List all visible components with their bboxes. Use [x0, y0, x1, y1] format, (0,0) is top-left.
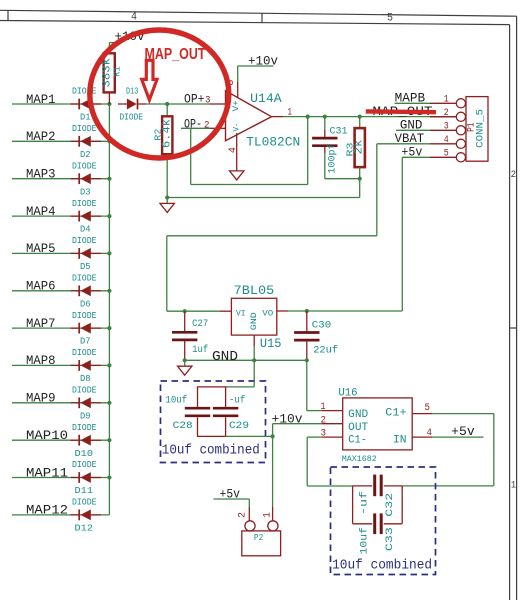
svg-text:100pf: 100pf — [327, 143, 339, 174]
diode D4 — [71, 211, 101, 222]
svg-text:U16: U16 — [338, 388, 357, 400]
svg-text:GND: GND — [212, 349, 238, 365]
annotation red ellipse MAP_OUT highlight — [90, 30, 229, 158]
svg-text:OP+: OP+ — [184, 92, 205, 106]
wire D13 to op-amp V+ input — [146, 103, 210, 105]
wire C1- vertical down — [306, 437, 308, 486]
wire anode bus vertical — [108, 104, 110, 515]
svg-text:1: 1 — [511, 481, 516, 492]
svg-text:10uf: 10uf — [358, 527, 370, 555]
svg-text:3: 3 — [205, 94, 211, 106]
svg-text:10uf combined: 10uf combined — [332, 558, 432, 573]
svg-text:D8: D8 — [80, 374, 91, 384]
op-amp U14A output pin lead — [271, 116, 283, 118]
capacitor C30 — [294, 311, 319, 360]
regulator U15 GND pin lead — [253, 335, 255, 346]
connector P2 body — [242, 531, 281, 556]
svg-text:7BL05: 7BL05 — [234, 283, 275, 298]
wire box1 bottom to +10v net — [226, 435, 273, 437]
svg-text:+5v: +5v — [451, 425, 475, 439]
diode D6 — [71, 285, 101, 296]
junction bus row 10 — [107, 438, 111, 442]
svg-text:D4: D4 — [80, 225, 91, 235]
svg-text:DIODE: DIODE — [72, 386, 97, 396]
wire ground stub C27 — [184, 360, 186, 366]
junction U15 GND on rail — [252, 358, 256, 362]
svg-text:DIODE: DIODE — [72, 423, 97, 433]
wire C1- to C32/C33 left — [307, 485, 352, 487]
svg-text:2: 2 — [321, 414, 327, 426]
wire MAP7 net — [12, 327, 109, 329]
wire ground stub R2 — [166, 198, 168, 204]
svg-text:DIODE: DIODE — [72, 460, 97, 470]
junction bus row 1 — [107, 102, 111, 106]
svg-text:MAP6: MAP6 — [26, 280, 56, 294]
wire MAP5 net — [12, 252, 109, 254]
connector P2 pin 1 pad — [268, 521, 278, 531]
wire VBAT net horizontal — [377, 143, 430, 145]
svg-text:MAP9: MAP9 — [26, 392, 56, 406]
svg-text:C1+: C1+ — [385, 408, 406, 420]
svg-text:CONN_5: CONN_5 — [475, 109, 487, 148]
diode D8 — [71, 360, 101, 371]
wire R2 top lead — [166, 104, 168, 116]
wire C1+ to C32/C33 right — [402, 485, 494, 487]
svg-text:D9: D9 — [80, 411, 91, 421]
connector P1 pin 5 pad — [456, 153, 465, 162]
wire pin2 lead — [430, 116, 456, 118]
wire pin8 to +10v — [237, 66, 239, 82]
diode D11 — [71, 472, 101, 483]
U16 pin 4 lead — [412, 436, 432, 438]
diode D3 — [71, 173, 101, 184]
svg-text:D13: D13 — [126, 87, 138, 97]
wire U16 OUT to +10v — [273, 423, 322, 425]
svg-text:C30: C30 — [312, 319, 331, 331]
connector P1 pin 3 pad — [456, 126, 465, 135]
wire MAP12 net — [12, 514, 109, 516]
svg-text:10uf combined: 10uf combined — [162, 443, 260, 458]
wire C31/R3 bottom rail — [325, 178, 360, 180]
svg-text:V+: V+ — [231, 100, 241, 111]
wire +5v down to P2 pin 2 — [248, 499, 250, 507]
wire MAPB stub — [395, 102, 430, 104]
svg-text:DIODE: DIODE — [72, 498, 97, 508]
svg-text:GND: GND — [348, 409, 368, 421]
U16 pin 1 lead — [322, 410, 343, 412]
wire VBAT horizontal long — [167, 235, 377, 237]
svg-text:MAP8: MAP8 — [26, 354, 56, 368]
wire U15 GND to rail — [253, 346, 255, 360]
svg-text:VI: VI — [236, 309, 246, 319]
svg-text:OUT: OUT — [348, 422, 368, 434]
junction bus row 6 — [107, 289, 111, 293]
connector P1 body — [466, 97, 488, 162]
svg-text:D6: D6 — [80, 299, 91, 309]
diode D10 — [71, 435, 101, 446]
svg-text:C31: C31 — [330, 126, 348, 138]
junction +10v net box1 — [271, 434, 275, 438]
svg-text:DIODE: DIODE — [120, 112, 144, 122]
junction bus row 8 — [107, 363, 111, 367]
svg-text:DIODE: DIODE — [72, 199, 97, 209]
wire +10v label stub — [109, 42, 116, 44]
svg-text:P2: P2 — [254, 532, 264, 543]
connector P1 pin 4 pad — [456, 139, 465, 148]
diode D7 — [71, 323, 101, 334]
wire MAP10 net — [12, 439, 109, 441]
wire VBAT down to VI — [166, 236, 168, 311]
diode D5 — [71, 248, 101, 259]
U16 pin 3 lead — [322, 436, 343, 438]
junction R2 bottom on ground rail — [165, 195, 169, 199]
junction bus row 5 — [107, 251, 111, 255]
connector P2 pin 2 lead — [248, 507, 250, 521]
annotation dashed box C32/C33 — [331, 467, 436, 575]
wire GND down into box1 — [253, 360, 255, 387]
svg-text:C29: C29 — [229, 420, 249, 432]
wire C1+ horizontal — [432, 413, 494, 415]
frame top inner line — [0, 21, 510, 25]
junction C27 bottom — [183, 358, 187, 362]
svg-text:D11: D11 — [75, 486, 94, 496]
svg-text:D1: D1 — [80, 113, 91, 123]
svg-text:DIODE: DIODE — [72, 274, 97, 284]
wire C1+ vertical down — [493, 414, 495, 486]
svg-text:MAP10: MAP10 — [26, 429, 68, 443]
svg-text:C28: C28 — [173, 420, 193, 432]
wire R3 top lead — [359, 117, 361, 128]
wire MAP11 net — [12, 477, 109, 479]
svg-text:U15: U15 — [260, 336, 282, 351]
svg-text:5: 5 — [425, 402, 431, 414]
svg-text:-uf: -uf — [358, 491, 370, 515]
frame right inner line — [509, 25, 511, 600]
svg-text:GND: GND — [249, 312, 259, 330]
svg-text:D2: D2 — [80, 150, 91, 160]
wire MAP1 net — [12, 103, 109, 105]
junction C30 bottom — [305, 358, 309, 362]
capacitor C32 — [375, 475, 382, 497]
wire MAP2 net — [12, 140, 109, 142]
svg-text:+5v: +5v — [401, 145, 422, 160]
svg-text:DIODE: DIODE — [72, 124, 97, 134]
svg-text:MAP2: MAP2 — [26, 130, 56, 144]
connector P2 pin 1 lead — [272, 507, 274, 521]
op-amp U14A — [226, 91, 272, 141]
svg-text:2: 2 — [511, 170, 516, 181]
svg-text:1: 1 — [263, 512, 274, 518]
diode D1 — [71, 99, 101, 110]
junction bus row 2 — [107, 139, 111, 143]
svg-text:C33: C33 — [384, 527, 396, 551]
wire +5v net horizontal — [402, 156, 430, 158]
wire VO output net — [288, 310, 402, 312]
wire C31 top — [324, 117, 326, 130]
svg-text:10uf: 10uf — [165, 395, 187, 407]
wire VBAT vertical — [376, 144, 378, 236]
svg-text:DIODE: DIODE — [72, 87, 97, 97]
regulator U15 VI pin lead — [220, 310, 231, 312]
junction R2 top — [165, 102, 169, 106]
svg-text:DIODE: DIODE — [72, 348, 97, 358]
U16 pin 2 lead — [322, 423, 343, 425]
svg-text:+10v: +10v — [248, 53, 278, 68]
wire op-amp V- input — [181, 127, 210, 129]
svg-text:R1: R1 — [111, 66, 122, 77]
wire +10v stub (op-amp) — [238, 65, 274, 67]
wire C31 bottom — [324, 153, 326, 179]
svg-text:OP-: OP- — [184, 118, 202, 132]
junction bus row 9 — [107, 401, 111, 405]
annotation dashed box C28/C29 — [161, 381, 266, 463]
frame tick right rows — [510, 327, 517, 329]
svg-text:MAP5: MAP5 — [26, 242, 56, 256]
junction C27 top — [183, 309, 187, 313]
junction bus row 11 — [107, 475, 111, 479]
diode D12 — [71, 510, 101, 521]
diode D2 — [71, 136, 101, 147]
wire +10v down to P2 — [272, 424, 274, 507]
svg-text:R2: R2 — [153, 128, 164, 140]
wire op-amp output to P1 pin 2 — [283, 116, 456, 118]
svg-text:MAP3: MAP3 — [26, 168, 56, 182]
wire R1 bottom lead — [108, 92, 110, 104]
junction R3 on output — [358, 115, 362, 119]
IC U16 body — [343, 398, 413, 450]
diode D9 — [71, 397, 101, 408]
svg-text:U14A: U14A — [250, 91, 282, 106]
junction C31 on output — [323, 115, 327, 119]
svg-text:TL082CN: TL082CN — [246, 135, 300, 150]
svg-text:VO: VO — [262, 309, 273, 319]
capacitor C27 — [172, 311, 197, 360]
capacitor C29 — [213, 408, 238, 416]
svg-text:2: 2 — [237, 512, 248, 518]
svg-text:22uf: 22uf — [313, 344, 338, 356]
svg-text:MAP_OUT: MAP_OUT — [145, 46, 206, 63]
wire bottom rail to ground rail — [359, 179, 361, 198]
svg-text:4: 4 — [131, 12, 137, 24]
svg-text:D12: D12 — [75, 524, 94, 534]
frame right outer line — [516, 16, 518, 600]
svg-text:MAX1682: MAX1682 — [342, 454, 377, 464]
svg-text:MAP11: MAP11 — [26, 466, 68, 480]
wire MAP8 net — [12, 364, 109, 366]
wire MAP9 net — [12, 402, 109, 404]
svg-text:DIODE: DIODE — [72, 161, 97, 171]
svg-text:MAP12: MAP12 — [26, 504, 68, 518]
svg-text:MAP1: MAP1 — [26, 93, 56, 107]
svg-text:C27: C27 — [192, 318, 208, 330]
svg-text:MAP7: MAP7 — [26, 317, 56, 331]
junction bus row 7 — [107, 326, 111, 330]
svg-text:DIODE: DIODE — [72, 236, 97, 246]
wire MAP4 net — [12, 215, 109, 217]
diode D13 — [118, 99, 146, 110]
regulator U15 body — [231, 298, 276, 335]
annotation red strikethrough on MAP_OUT — [366, 109, 436, 114]
svg-text:C32: C32 — [384, 493, 396, 517]
wire +5v stub P2 — [214, 498, 250, 500]
svg-text:D5: D5 — [80, 262, 91, 272]
wire R1 top to +10v stub — [108, 43, 110, 54]
wire feedback left vertical — [190, 128, 192, 184]
svg-text:5: 5 — [387, 13, 393, 25]
op-amp U14A pin 8 lead — [237, 82, 239, 98]
svg-text:R3: R3 — [345, 142, 356, 156]
capacitor C28/C29 interconnect top — [198, 387, 226, 407]
svg-text:MAP4: MAP4 — [26, 205, 56, 219]
resistor R2 — [162, 116, 172, 154]
capacitor C32/C33 interconnect — [353, 486, 403, 524]
ground symbol R2 rail — [160, 203, 174, 212]
wire R3 bottom lead — [359, 167, 361, 179]
connector P2 pin 2 pad — [245, 521, 255, 531]
junction bus row 3 — [107, 177, 111, 181]
capacitor C28/C29 interconnect bottom — [198, 417, 226, 436]
op-amp U14A pin 4 lead — [236, 133, 238, 171]
wire GND stub P1 — [396, 129, 430, 131]
wire U16 GND pin — [307, 410, 322, 412]
wire +5v vertical — [401, 157, 403, 311]
regulator U15 VO pin lead — [277, 310, 288, 312]
svg-text:1uf: 1uf — [192, 344, 208, 356]
svg-text:C1-: C1- — [348, 435, 367, 447]
svg-text:4: 4 — [228, 147, 239, 153]
connector P1 pin 1 pad — [456, 99, 465, 108]
frame tick left — [7, 10, 9, 20]
svg-text:2: 2 — [204, 120, 210, 132]
resistor R3 — [355, 128, 365, 167]
junction feedback on output — [306, 115, 310, 119]
ground symbol GND rail — [178, 366, 192, 375]
resistor R1 — [104, 53, 115, 92]
capacitor C33 — [353, 513, 403, 534]
svg-text:D10: D10 — [75, 449, 94, 459]
junction R3 bottom — [358, 177, 362, 181]
svg-text:DIODE: DIODE — [72, 311, 97, 321]
wire GND rail — [185, 359, 307, 361]
junction C30 top — [305, 309, 309, 313]
capacitor C28 — [185, 408, 210, 416]
wire feedback right vertical — [307, 117, 309, 185]
frame top outer line — [0, 10, 517, 16]
wire IN to +5v stub — [432, 436, 484, 438]
annotation red arrow — [142, 60, 157, 100]
wire VI input — [167, 310, 220, 312]
frame tick between columns 4 and 5 — [261, 13, 263, 23]
svg-text:D3: D3 — [80, 187, 91, 197]
wire MAP3 net — [12, 178, 109, 180]
svg-text:D7: D7 — [80, 337, 91, 347]
wire U16 C1- pin — [307, 436, 322, 438]
junction bus row 4 — [107, 214, 111, 218]
U16 pin 5 lead — [412, 413, 432, 415]
svg-text:IN: IN — [393, 435, 407, 447]
svg-text:-uf: -uf — [229, 395, 245, 407]
wire GND rail down to U16 — [306, 360, 308, 410]
wire R2 bottom to ground rail — [166, 154, 168, 197]
wire MAP6 net — [12, 290, 109, 292]
wire box1 top green segment — [226, 386, 255, 388]
ground symbol op-amp — [230, 171, 244, 180]
wire analog ground rail — [167, 197, 360, 199]
wire feedback bottom horizontal — [191, 184, 308, 186]
capacitor C31 — [312, 130, 337, 153]
connector P1 pin 2 pad — [456, 112, 465, 121]
